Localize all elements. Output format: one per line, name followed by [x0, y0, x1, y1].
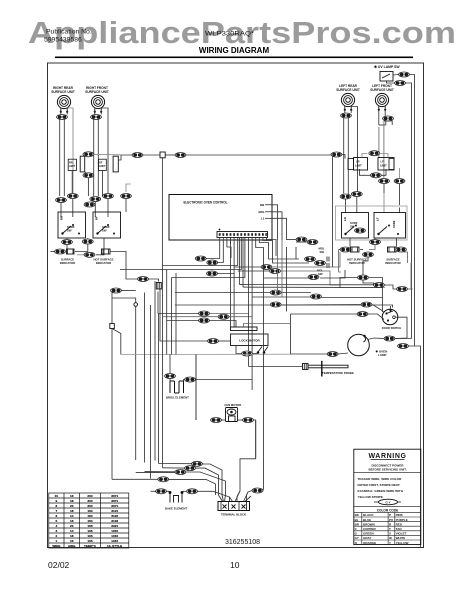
oven lamp switch box — [380, 72, 393, 82]
svg-text:LIMIT: LIMIT — [355, 164, 362, 168]
connector below right indicators 3 — [397, 287, 408, 292]
svg-text:RR: RR — [60, 216, 64, 220]
connector door switch feed 3 — [361, 302, 372, 307]
svg-text:18: 18 — [70, 534, 74, 538]
svg-text:316255108: 316255108 — [225, 537, 260, 546]
connector middle right indicators — [363, 252, 374, 257]
connector mid 6 — [270, 302, 281, 307]
connector above right switches 2 — [351, 192, 362, 197]
connector above right switches 1 — [340, 194, 351, 199]
wire RF coil leads down — [94, 111, 96, 115]
svg-text:3071: 3071 — [111, 504, 118, 508]
hot surface indicator lamp — [102, 249, 111, 254]
MDL lower connectors — [305, 257, 316, 262]
svg-text:9: 9 — [56, 499, 58, 503]
svg-text:18: 18 — [70, 499, 74, 503]
broil element connector right — [185, 377, 196, 382]
connector right of oven lamp — [384, 336, 395, 341]
svg-text:W: W — [389, 536, 392, 540]
connector lock area 3 — [199, 318, 210, 323]
svg-text:UL STYLE: UL STYLE — [107, 544, 122, 548]
color code table — [354, 512, 421, 544]
svg-text:3321: 3321 — [111, 524, 118, 528]
tracer wire example symbol — [374, 501, 401, 503]
svg-text:GY: GY — [355, 536, 359, 540]
svg-text:COLOR CODE: COLOR CODE — [377, 508, 399, 512]
bake element plug — [169, 492, 183, 503]
svg-text:BROWN: BROWN — [363, 522, 375, 526]
svg-text:LF: LF — [381, 160, 385, 164]
watermark header AppliancePartsPros.com — [28, 15, 456, 50]
wire connectors into switch A — [61, 184, 131, 217]
svg-text:L1: L1 — [261, 217, 265, 221]
surface indicator right: lamp — [388, 247, 397, 252]
fan motor — [226, 408, 238, 422]
connector left of lock motor — [208, 339, 219, 344]
wire switch outputs down — [51, 238, 138, 279]
connector mid-left — [138, 277, 149, 282]
svg-text:4: 4 — [56, 524, 58, 528]
svg-text:150: 150 — [87, 509, 92, 513]
limiter LF box — [378, 158, 394, 171]
svg-text:SURFACE UNIT: SURFACE UNIT — [85, 90, 109, 94]
temperature probe body — [321, 361, 323, 377]
svg-text:BROIL ELEMENT: BROIL ELEMENT — [166, 396, 189, 400]
wire mid-left routing — [111, 279, 291, 479]
svg-text:NOTED FIRST, STRIPE NEXT.: NOTED FIRST, STRIPE NEXT. — [358, 483, 401, 487]
junction node circle mid-left — [134, 303, 138, 307]
svg-text:1015: 1015 — [111, 534, 118, 538]
svg-text:SW: SW — [320, 250, 325, 254]
svg-text:INDICATOR: INDICATOR — [96, 261, 111, 265]
wire door switch loop to lamp connector — [395, 317, 407, 338]
svg-text:1015: 1015 — [111, 539, 118, 543]
wire mid-left horiz to lock area — [158, 314, 252, 328]
connector above RR limiter — [83, 152, 94, 157]
wire LF coil leads down — [378, 110, 380, 126]
svg-text:BL: BL — [355, 518, 359, 522]
warning box — [354, 449, 421, 544]
connector mid 3 — [308, 275, 319, 280]
connector bottom row 4 — [158, 477, 169, 482]
surface unit coil LR — [341, 93, 354, 111]
wire right indicator drops — [340, 257, 413, 289]
broil element connector top — [165, 374, 176, 379]
svg-text:2: 2 — [56, 534, 58, 538]
connector below RR — [57, 115, 68, 120]
connector below EOC 2 — [207, 260, 218, 265]
lock motor cam switches — [257, 347, 268, 354]
svg-text:SURFACE UNIT: SURFACE UNIT — [370, 88, 394, 92]
wire oven lamp circuit — [291, 314, 421, 547]
infinite switch RF box — [93, 212, 121, 238]
surface unit coil LF — [375, 93, 388, 111]
wire limiter RF up to bus — [85, 154, 331, 196]
wire middle horizontals — [175, 156, 393, 327]
connector lower of lamp switch — [395, 81, 406, 86]
EOC bottom pin strip — [217, 232, 268, 238]
wire gray drop RR — [72, 128, 74, 196]
limiter RF box — [99, 159, 107, 170]
svg-text:✱ OV LAMP SW: ✱ OV LAMP SW — [374, 65, 400, 69]
svg-text:DB: DB — [260, 203, 265, 207]
connector lower right of lamp — [398, 344, 409, 349]
connector below EOC 3 — [207, 271, 218, 276]
connector right of lamp switch — [399, 72, 410, 77]
svg-text:BLUE: BLUE — [363, 518, 371, 522]
connector bottom row 3 — [175, 470, 186, 475]
wire EOC right pins routed down — [272, 205, 287, 240]
svg-text:FAN MOTOR: FAN MOTOR — [225, 403, 242, 407]
wire LR right lead over and down — [351, 107, 357, 194]
connector below right indicators 2 — [374, 283, 385, 288]
wire MDL connections — [287, 240, 308, 260]
svg-text:P: P — [389, 513, 391, 517]
svg-text:Y: Y — [389, 541, 391, 545]
svg-text:7: 7 — [56, 509, 58, 513]
connector pair below right — [394, 179, 405, 184]
svg-text:LF: LF — [376, 217, 380, 221]
svg-text:6: 6 — [56, 514, 58, 518]
connector mid 5 — [311, 294, 322, 299]
svg-text:GRAY: GRAY — [363, 536, 371, 540]
MDL switch connectors upper — [296, 237, 307, 242]
svg-text:18: 18 — [70, 509, 74, 513]
svg-text:ORANGE: ORANGE — [363, 541, 376, 545]
connector lock area 2 — [218, 314, 229, 319]
connector above switch A right — [84, 202, 95, 207]
wire LR coil leads down — [344, 110, 346, 114]
svg-text:DOOR SWITCH: DOOR SWITCH — [382, 326, 401, 330]
svg-text:20: 20 — [70, 524, 74, 528]
svg-text:150: 150 — [87, 519, 92, 523]
broil element coil — [170, 381, 184, 393]
electronic oven control box — [169, 195, 272, 241]
connector below LR — [341, 113, 352, 118]
wires from EOC bottom pins fanning down — [120, 238, 276, 297]
svg-text:02/02: 02/02 — [48, 560, 70, 570]
limiter RR box — [68, 159, 76, 170]
svg-text:YELLOW: YELLOW — [396, 541, 409, 545]
svg-text:3: 3 — [56, 529, 58, 533]
surface indicator lamp left — [55, 249, 66, 254]
MDL lower hatches — [327, 257, 329, 269]
title WIRING DIAGRAM — [55, 46, 413, 58]
svg-text:3122: 3122 — [111, 514, 118, 518]
svg-text:TRACER WIRE: WIRE COLOR: TRACER WIRE: WIRE COLOR — [358, 477, 403, 481]
svg-text:16: 16 — [70, 539, 74, 543]
svg-text:SURFACE UNIT: SURFACE UNIT — [51, 90, 75, 94]
connector on bus right — [175, 153, 186, 158]
terminal block — [218, 502, 250, 511]
wire probe to left — [249, 286, 303, 391]
wire fan motor — [196, 355, 256, 459]
lock motor cam bar — [231, 327, 258, 331]
svg-text:3071: 3071 — [111, 494, 118, 498]
svg-text:8: 8 — [56, 504, 58, 508]
connector below LF — [383, 116, 394, 121]
svg-text:BR: BR — [355, 522, 360, 526]
svg-text:RED: RED — [396, 522, 403, 526]
connector mid-left lower — [111, 288, 122, 293]
svg-text:INDICATOR: INDICATOR — [349, 261, 364, 265]
wire long verticals right — [411, 88, 415, 346]
tracer wire paragraph — [358, 477, 404, 499]
connector bottom row 6 — [187, 489, 198, 494]
svg-text:16: 16 — [70, 494, 74, 498]
surface unit coil RR — [57, 95, 70, 113]
connector bottom row 7 — [252, 488, 263, 493]
oven lamp — [348, 334, 370, 356]
svg-text:AWG: AWG — [68, 544, 76, 548]
wire bottom sweeps — [112, 420, 256, 502]
svg-text:LR: LR — [343, 217, 347, 221]
connector middle indicator — [84, 252, 95, 257]
svg-text:5995439586: 5995439586 — [44, 37, 82, 44]
svg-text:TAN: TAN — [396, 527, 402, 531]
surface unit coil RF — [91, 95, 104, 113]
limiter LR box — [354, 158, 368, 171]
svg-text:3121: 3121 — [111, 509, 118, 513]
svg-text:INDICATOR: INDICATOR — [60, 261, 75, 265]
gray enclosure around right switches — [336, 206, 408, 240]
svg-text:G: G — [355, 532, 358, 536]
connector below EOC 1 — [195, 256, 206, 261]
svg-text:TEMPERATURE PROBE: TEMPERATURE PROBE — [322, 371, 354, 375]
svg-text:1: 1 — [56, 539, 58, 543]
connector mid right 1 — [261, 265, 272, 270]
svg-text:150: 150 — [87, 514, 92, 518]
page border frame — [48, 63, 424, 548]
svg-text:BK: BK — [355, 513, 360, 517]
svg-text:14: 14 — [70, 514, 74, 518]
wire lock motor — [160, 288, 291, 354]
svg-text:105: 105 — [87, 529, 92, 533]
svg-text:WARNING: WARNING — [368, 453, 406, 460]
svg-text:LOCK MOTOR: LOCK MOTOR — [239, 339, 260, 343]
svg-text:PINK: PINK — [396, 513, 404, 517]
svg-text:SW: SW — [318, 272, 323, 276]
svg-text:LR: LR — [356, 160, 360, 164]
svg-text:C: C — [355, 527, 358, 531]
temperature probe connector — [303, 364, 309, 370]
connector bottom row 5 — [156, 489, 167, 494]
svg-text:WIRE: WIRE — [52, 544, 60, 548]
svg-text:WIRING DIAGRAM: WIRING DIAGRAM — [199, 46, 270, 55]
svg-text:G-Y: G-Y — [385, 501, 390, 505]
svg-text:T: T — [389, 527, 391, 531]
svg-text:LIMIT: LIMIT — [99, 165, 106, 168]
svg-text:RF: RF — [95, 216, 99, 220]
connector below RF — [91, 115, 102, 120]
wire right coil leads into switches — [346, 193, 400, 213]
connector left of oven lamp — [327, 352, 338, 357]
svg-text:SURF: SURF — [392, 220, 396, 228]
wire door switch lower-left — [281, 278, 391, 320]
wire broil element — [170, 355, 252, 382]
wire gauge table — [49, 493, 129, 548]
connector below L limiters — [370, 173, 381, 178]
connector door switch feed 4 — [357, 312, 368, 317]
svg-text:LIMIT: LIMIT — [69, 165, 76, 168]
svg-text:5: 5 — [56, 519, 58, 523]
svg-text:200: 200 — [87, 494, 92, 498]
svg-text:105: 105 — [87, 524, 92, 528]
terminal block funnels — [219, 491, 252, 502]
connector bottom row 1 — [192, 461, 203, 466]
connector below lock motor — [242, 351, 253, 356]
svg-text:PURPLE: PURPLE — [396, 518, 408, 522]
svg-text:BLACK: BLACK — [363, 513, 374, 517]
svg-text:WHITE: WHITE — [396, 536, 406, 540]
junction box on bus — [160, 152, 165, 158]
svg-text:COPPER: COPPER — [363, 527, 377, 531]
transformer comp mid — [156, 283, 161, 290]
svg-text:14: 14 — [70, 529, 74, 533]
wire right switch outputs — [339, 238, 408, 272]
connector below switch A right — [82, 239, 93, 244]
connector between L limiters — [369, 151, 380, 156]
svg-text:Publication No.: Publication No. — [46, 29, 92, 36]
infinite switch RR box — [58, 212, 86, 238]
svg-text:TEMP°C: TEMP°C — [84, 544, 97, 548]
svg-text:BEFORE SERVICING UNIT.: BEFORE SERVICING UNIT. — [368, 468, 406, 472]
svg-text:INDICATOR: INDICATOR — [385, 261, 400, 265]
connector below RR limiter — [83, 173, 94, 178]
svg-text:10: 10 — [230, 560, 240, 570]
connector before LR limiter — [331, 152, 342, 157]
connector below right indicators 1 — [358, 275, 369, 280]
svg-text:300: 300 — [87, 504, 92, 508]
wire RR coil leads down — [60, 107, 393, 197]
svg-text:V: V — [389, 532, 391, 536]
wire lamp switch to connectors — [387, 75, 415, 89]
svg-text:GREEN: GREEN — [363, 532, 374, 536]
connector mid 4 — [270, 290, 281, 295]
svg-text:20: 20 — [70, 504, 74, 508]
infinite switch LF box — [374, 213, 406, 239]
svg-text:ELECTRONIC OVEN CONTROL: ELECTRONIC OVEN CONTROL — [184, 201, 228, 205]
svg-text:3123: 3123 — [111, 519, 118, 523]
svg-text:R: R — [389, 522, 392, 526]
junction square mid-left — [110, 324, 115, 329]
svg-text:16: 16 — [70, 519, 74, 523]
svg-text:300: 300 — [87, 499, 92, 503]
door switch — [382, 309, 398, 325]
svg-text:WLP330RAQ*: WLP330RAQ* — [205, 31, 254, 38]
svg-text:LIMIT: LIMIT — [380, 164, 387, 168]
svg-text:VIOLET: VIOLET — [396, 532, 407, 536]
svg-text:10: 10 — [55, 494, 59, 498]
lock motor box — [231, 334, 269, 346]
connector lock area 1 — [199, 311, 210, 316]
svg-text:SURFACE UNIT: SURFACE UNIT — [336, 88, 360, 92]
wire EOC drops to bottom funnel — [159, 240, 310, 491]
svg-text:1015: 1015 — [111, 529, 118, 533]
svg-text:TERMINAL BLOCK: TERMINAL BLOCK — [221, 513, 246, 517]
connector pair below left — [379, 179, 390, 184]
svg-text:BRL: BRL — [259, 210, 265, 214]
svg-text:105: 105 — [87, 534, 92, 538]
wire bus into LR limiter — [342, 154, 388, 176]
svg-text:YELLOW STRIPE.: YELLOW STRIPE. — [358, 495, 384, 499]
surface unit RR label — [51, 84, 394, 94]
svg-text:PU: PU — [389, 518, 393, 522]
infinite switch LR box — [342, 213, 369, 239]
fan motor connectors — [211, 418, 222, 423]
wire RF right lead over and down — [101, 108, 108, 196]
svg-text:3071: 3071 — [111, 499, 118, 503]
svg-text:BAKE ELEMENT: BAKE ELEMENT — [165, 507, 187, 511]
svg-text:EXAMPLE: GREEN WIRE WITH: EXAMPLE: GREEN WIRE WITH — [358, 489, 404, 493]
svg-text:105: 105 — [87, 539, 92, 543]
wire limiter outputs down — [72, 168, 399, 205]
connector mid right 2 — [270, 269, 281, 274]
connector below switch A — [62, 240, 73, 245]
connector on bus left — [132, 153, 143, 158]
svg-text:LAMP: LAMP — [378, 353, 387, 357]
connector below LR/LF switches — [370, 240, 381, 245]
connector inside LR switch — [355, 228, 366, 233]
connector row above left switches — [56, 198, 67, 203]
connector bottom row 2 — [185, 466, 196, 471]
hot surface indicator right: lamp — [340, 247, 351, 252]
